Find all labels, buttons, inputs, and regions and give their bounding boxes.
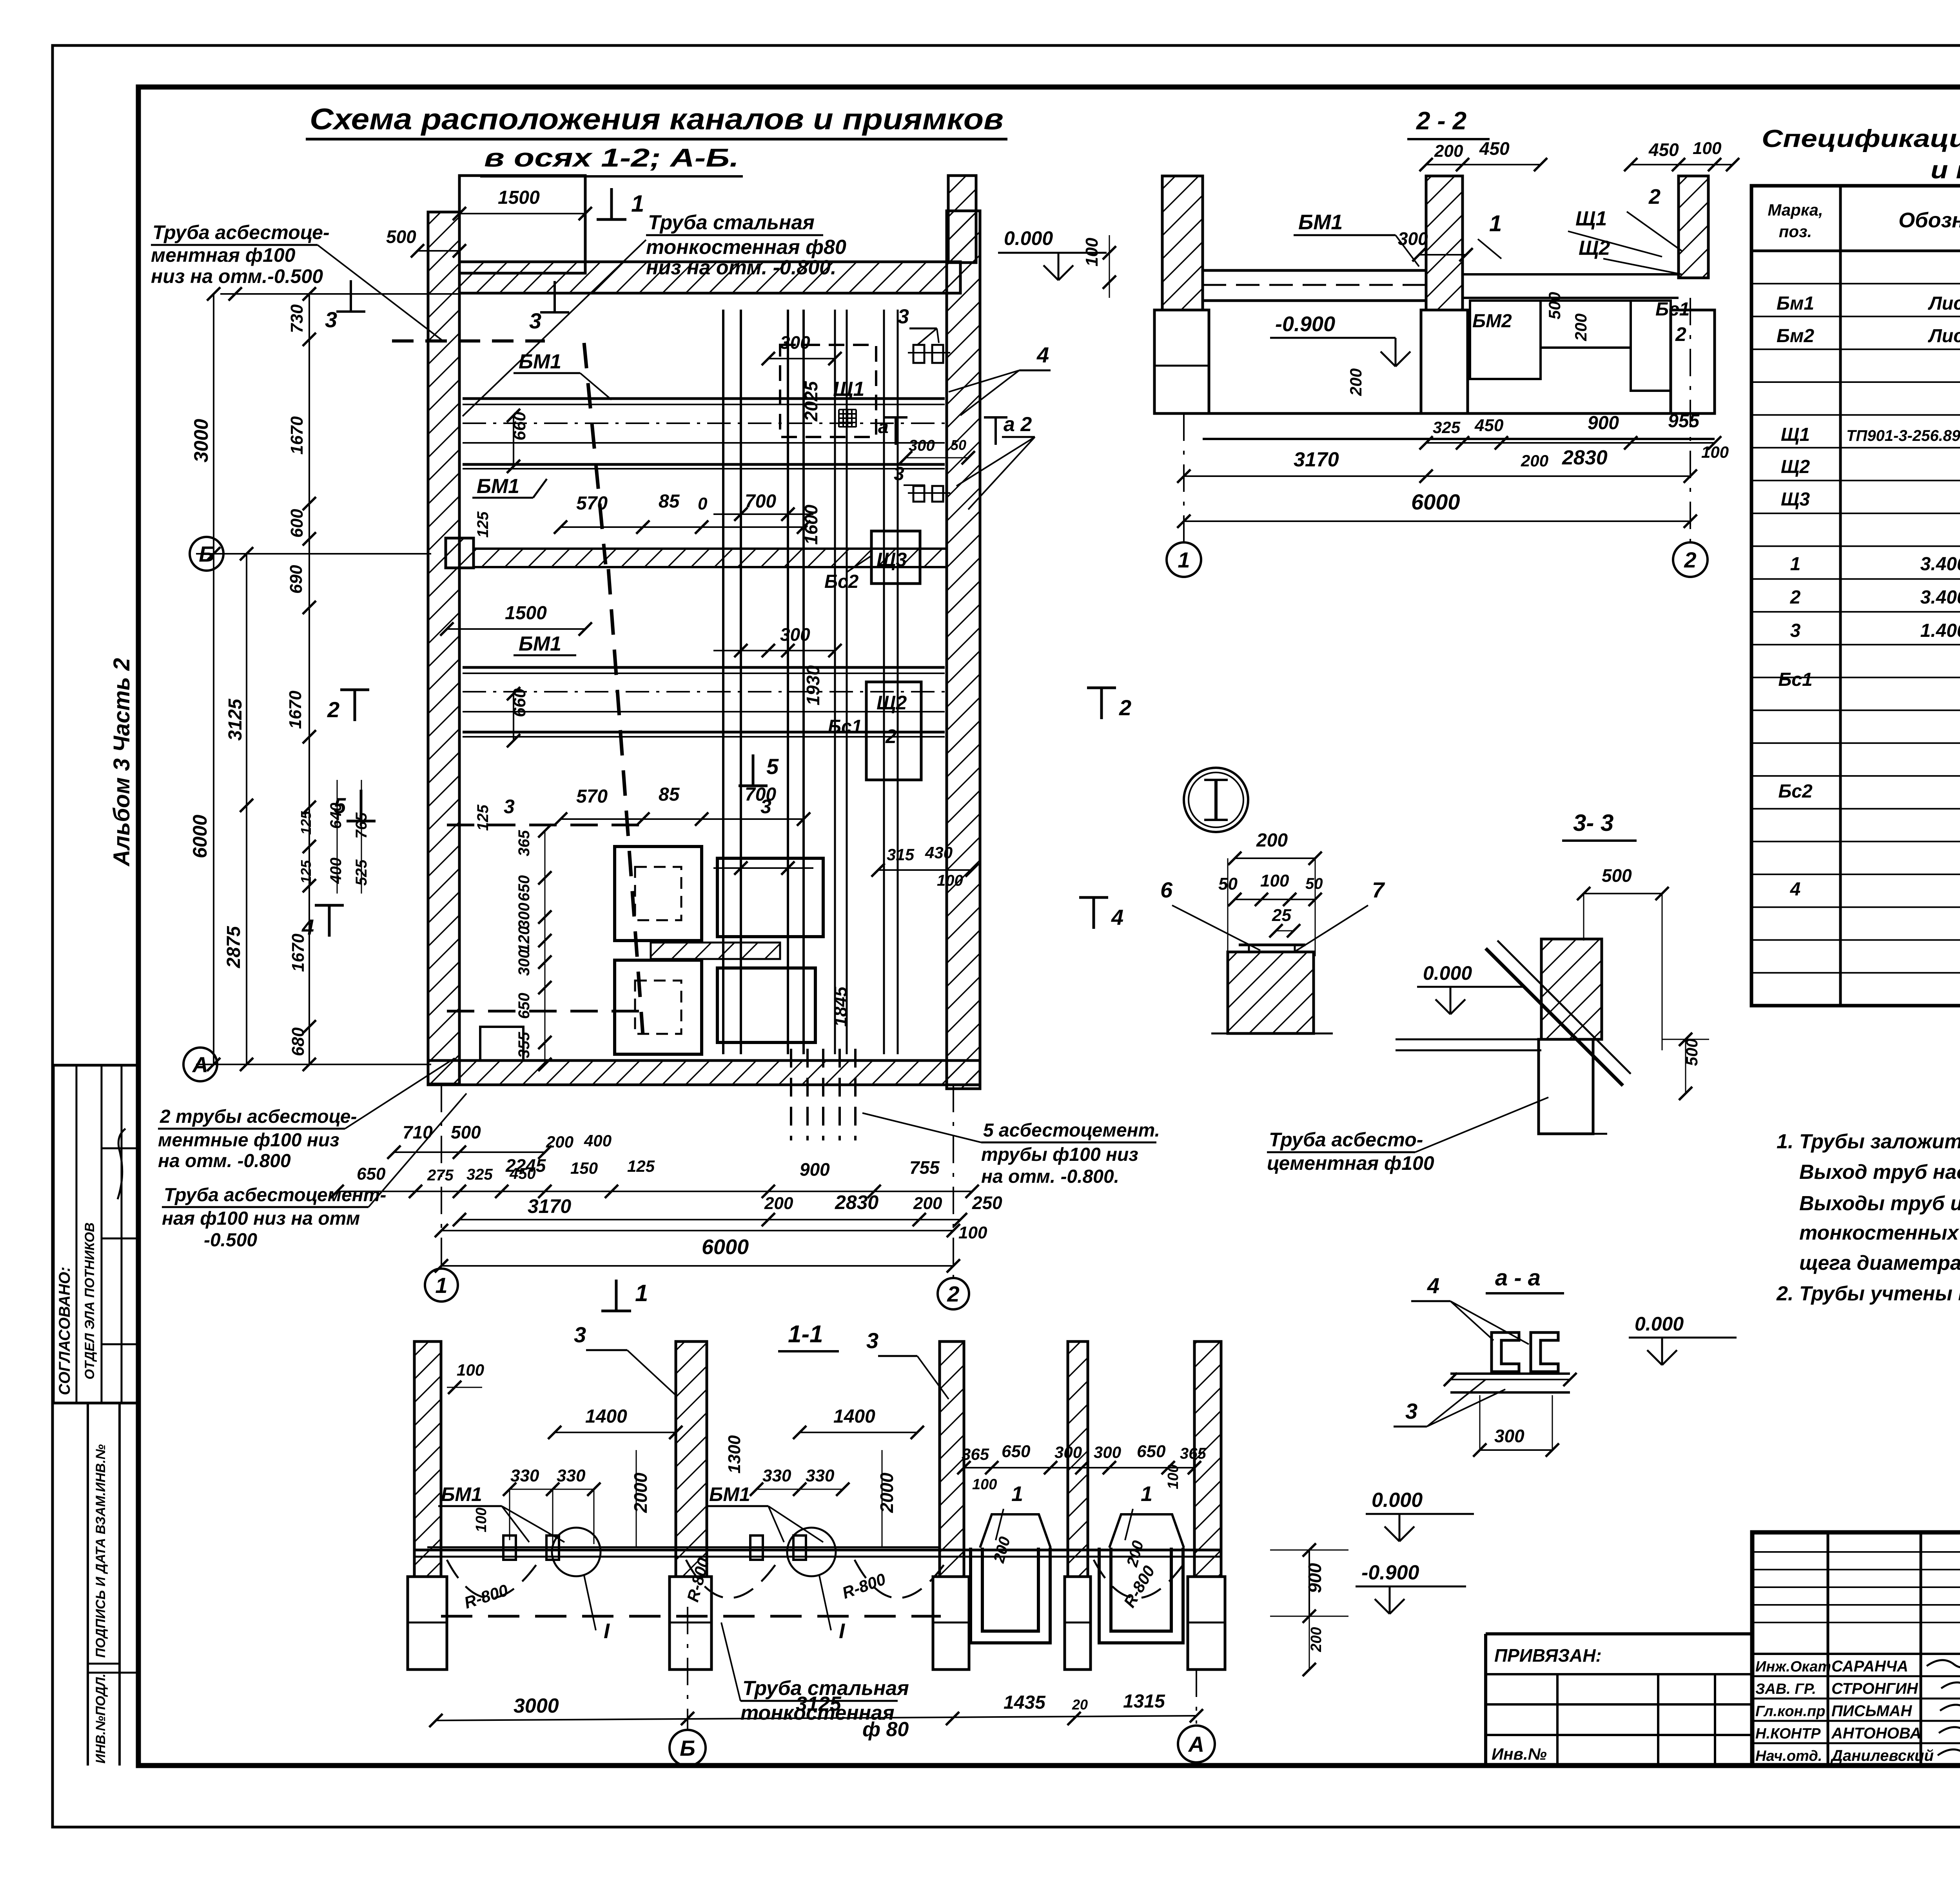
svg-text:0.000: 0.000: [1372, 1489, 1423, 1512]
plan top opening: [459, 176, 585, 273]
svg-text:2: 2: [1684, 547, 1696, 572]
svg-text:4: 4: [301, 915, 314, 939]
svg-text:900: 900: [1305, 1563, 1325, 1593]
dim 1500 top: [459, 213, 585, 214]
svg-text:2 трубы асбестоце-: 2 трубы асбестоце-: [160, 1106, 357, 1127]
sec2-2 right column: [1679, 176, 1708, 278]
svg-text:1670: 1670: [287, 416, 307, 455]
svg-text:СТРОНГИН: СТРОНГИН: [1831, 1680, 1918, 1697]
svg-text:50: 50: [1305, 875, 1323, 892]
sec2-2 step structures: [1470, 301, 1541, 379]
svg-text:100: 100: [457, 1361, 484, 1379]
svg-text:а: а: [878, 417, 889, 437]
1-1 footings: [408, 1577, 447, 1670]
svg-text:на отм. -0.800.: на отм. -0.800.: [981, 1166, 1119, 1187]
1-1 couplings and detail circles: [503, 1535, 516, 1560]
plan bottom small rect: [480, 1027, 523, 1060]
svg-text:БМ1: БМ1: [1298, 210, 1343, 234]
svg-text:Труба асбесто-: Труба асбесто-: [1269, 1129, 1423, 1151]
svg-text:2: 2: [327, 697, 339, 722]
svg-text:3.400- 6/76: 3.400- 6/76: [1920, 587, 1960, 608]
svg-text:ИНВ.№ПОДЛ.: ИНВ.№ПОДЛ.: [93, 1673, 108, 1764]
plan dashed pipe lines bottom room: [447, 824, 651, 827]
svg-text:500: 500: [1602, 865, 1632, 886]
svg-text:Выходы труб из пола защитить о: Выходы труб из пола защитить отрезками и…: [1799, 1192, 1960, 1215]
3-3 diagonal brace: [1486, 948, 1623, 1086]
plan Sch2 box: [866, 682, 921, 780]
svg-text:5: 5: [766, 754, 779, 779]
svg-text:АНТОНОВА: АНТОНОВА: [1831, 1725, 1921, 1742]
svg-text:400: 400: [584, 1131, 612, 1150]
svg-text:ф 80: ф 80: [862, 1718, 909, 1741]
svg-text:330: 330: [762, 1466, 791, 1485]
plan left wall: [428, 212, 459, 1084]
svg-text:700: 700: [745, 491, 776, 512]
svg-text:1: 1: [635, 1280, 648, 1306]
svg-text:Щ1: Щ1: [1575, 207, 1607, 230]
svg-text:730: 730: [287, 304, 307, 333]
1-1 R-800 arcs: [447, 1560, 537, 1598]
svg-text:4: 4: [1790, 879, 1801, 900]
svg-text:1: 1: [1178, 547, 1190, 572]
1-1 dims 330 330 left: [510, 1489, 594, 1490]
3-3 pier: [1539, 1039, 1593, 1134]
svg-text:200: 200: [1521, 451, 1548, 470]
svg-text:1500: 1500: [498, 187, 540, 208]
svg-text:600: 600: [287, 509, 307, 538]
svg-text:0.000: 0.000: [1635, 1313, 1684, 1335]
plan a section mark: [895, 417, 897, 445]
svg-text:450: 450: [1648, 140, 1679, 160]
svg-text:1930: 1930: [803, 665, 823, 705]
svg-text:275: 275: [427, 1167, 454, 1184]
svg-text:650: 650: [515, 875, 533, 901]
svg-text:1: 1: [1141, 1482, 1152, 1506]
svg-text:755: 755: [909, 1157, 940, 1178]
svg-text:Щ2: Щ2: [1579, 237, 1610, 259]
svg-text:3- 3: 3- 3: [1573, 810, 1613, 836]
svg-text:900: 900: [800, 1159, 830, 1180]
svg-text:200: 200: [764, 1194, 793, 1213]
dim 1500 mid: [447, 628, 585, 630]
svg-text:710: 710: [403, 1122, 433, 1142]
svg-text:650: 650: [1137, 1442, 1166, 1461]
svg-text:430: 430: [925, 843, 953, 862]
specification table grid: [1751, 186, 1960, 1006]
svg-text:а - а: а - а: [1495, 1265, 1541, 1291]
section mark 2 left: [354, 690, 356, 721]
svg-text:400: 400: [327, 857, 345, 884]
svg-text:6: 6: [1160, 877, 1173, 902]
svg-text:Щ1: Щ1: [1781, 424, 1810, 445]
svg-text:3000: 3000: [514, 1695, 559, 1717]
dashed verticals bottom plan: [790, 1049, 792, 1140]
svg-text:низ на отм. -0.800.: низ на отм. -0.800.: [646, 256, 837, 279]
svg-text:100: 100: [937, 872, 963, 889]
svg-text:I: I: [839, 1619, 845, 1643]
svg-text:1: 1: [435, 1273, 447, 1298]
svg-text:Нач.отд.: Нач.отд.: [1755, 1748, 1822, 1764]
svg-text:100: 100: [1701, 443, 1729, 461]
svg-text:100: 100: [958, 1223, 987, 1242]
3-3 floor lines: [1396, 1039, 1541, 1041]
svg-text:365: 365: [1180, 1445, 1206, 1462]
sec2-2 left column: [1162, 176, 1203, 310]
svg-text:3: 3: [504, 796, 515, 818]
svg-text:3: 3: [325, 307, 337, 332]
svg-text:5 асбестоцемент.: 5 асбестоцемент.: [983, 1120, 1160, 1141]
plan beam bundle top (BM1): [463, 397, 945, 400]
plan pit step band: [651, 943, 780, 959]
svg-text:1500: 1500: [505, 603, 547, 624]
svg-text:Лист 21: Лист 21: [1928, 293, 1960, 314]
svg-text:Бс2: Бс2: [824, 571, 859, 592]
svg-text:и приямков.: и приямков.: [1931, 156, 1960, 184]
svg-text:4: 4: [1111, 905, 1123, 930]
svg-text:85: 85: [659, 491, 680, 512]
axis B line: [196, 553, 431, 555]
svg-text:I: I: [604, 1619, 610, 1643]
svg-text:-0.900: -0.900: [1361, 1561, 1419, 1584]
svg-text:330: 330: [806, 1466, 835, 1485]
svg-text:680: 680: [289, 1027, 308, 1056]
axis circle 2 plan: [953, 1085, 954, 1278]
section mark 5 left: [360, 790, 363, 821]
svg-text:3: 3: [1790, 620, 1801, 641]
svg-text:1-1: 1-1: [788, 1321, 823, 1348]
svg-text:150: 150: [570, 1159, 598, 1177]
svg-text:1845: 1845: [830, 986, 851, 1027]
svg-text:650: 650: [1002, 1442, 1031, 1461]
1-1 floor lines: [414, 1549, 1221, 1552]
axis A circle: [183, 1048, 217, 1081]
svg-text:330: 330: [510, 1466, 539, 1485]
svg-text:ментные ф100 низ: ментные ф100 низ: [158, 1130, 339, 1151]
dim 500 top: [417, 250, 459, 252]
svg-text:200: 200: [1434, 141, 1463, 161]
svg-text:4: 4: [1427, 1273, 1439, 1298]
svg-text:Щ2: Щ2: [877, 692, 907, 714]
plan middle wall band: [474, 549, 947, 567]
svg-text:Инж.Окат: Инж.Окат: [1755, 1659, 1831, 1675]
svg-text:Бм2: Бм2: [1777, 326, 1814, 346]
dashed pipe at top: [392, 339, 545, 343]
svg-text:1: 1: [1011, 1482, 1023, 1506]
svg-text:низ на отм.-0.500: низ на отм.-0.500: [151, 265, 323, 287]
svg-text:3.400- 6/76: 3.400- 6/76: [1920, 554, 1960, 575]
svg-text:500: 500: [1545, 292, 1564, 319]
svg-text:2: 2: [1675, 323, 1686, 345]
svg-text:Марка,: Марка,: [1768, 201, 1823, 219]
plan beam bundle bottom (BM1): [463, 666, 945, 669]
steel pipe dashed trace upper: [584, 343, 606, 564]
svg-text:125: 125: [474, 511, 492, 538]
svg-text:тонкостенная ф80: тонкостенная ф80: [646, 236, 846, 259]
svg-text:3: 3: [1405, 1399, 1417, 1423]
svg-text:500: 500: [386, 227, 416, 247]
svg-text:Труба стальная: Труба стальная: [742, 1677, 909, 1700]
svg-text:100: 100: [972, 1476, 997, 1493]
a-a base plate: [1450, 1372, 1570, 1375]
a-a channels: [1492, 1332, 1519, 1372]
svg-text:Щ3: Щ3: [877, 549, 907, 571]
section mark 4 left: [328, 905, 331, 937]
svg-text:100: 100: [1165, 1465, 1181, 1489]
sec2-2 middle column: [1426, 176, 1463, 310]
left dim chain 1: [213, 294, 214, 1064]
detail I block: [1228, 952, 1314, 1033]
svg-text:125: 125: [474, 805, 492, 831]
svg-text:2000: 2000: [630, 1472, 651, 1513]
svg-text:2: 2: [885, 725, 897, 747]
svg-text:3: 3: [760, 796, 771, 818]
svg-text:300: 300: [515, 903, 533, 929]
section mark 2 right: [1100, 688, 1103, 719]
svg-text:Обозначение: Обозначение: [1898, 208, 1960, 232]
plan right inner channel lines: [834, 310, 836, 1054]
svg-text:2245: 2245: [505, 1155, 546, 1176]
svg-text:1300: 1300: [725, 1435, 744, 1474]
sec2-2 bottom floor line: [1154, 412, 1715, 415]
svg-text:1: 1: [1489, 211, 1502, 236]
plan middle wall stub: [446, 538, 474, 568]
svg-text:3: 3: [529, 308, 541, 333]
svg-text:1400: 1400: [833, 1406, 875, 1427]
margin bottom strip: [87, 1403, 89, 1766]
svg-text:1: 1: [1790, 554, 1801, 575]
1-1 dims 330 330 right: [757, 1489, 843, 1490]
svg-text:Б: Б: [680, 1736, 695, 1760]
svg-text:325: 325: [1433, 418, 1461, 437]
svg-text:поз.: поз.: [1779, 222, 1812, 241]
svg-text:ПРИВЯЗАН:: ПРИВЯЗАН:: [1494, 1645, 1602, 1666]
margin approval box: [53, 1065, 138, 1403]
svg-text:100: 100: [1260, 871, 1289, 890]
svg-text:3: 3: [894, 464, 904, 484]
svg-text:3170: 3170: [528, 1195, 571, 1217]
1-1 axis circles: [687, 1607, 688, 1729]
svg-text:3: 3: [574, 1322, 586, 1347]
sec2-2 right floor: [1463, 273, 1679, 276]
svg-text:2: 2: [947, 1282, 959, 1306]
svg-text:Бс1: Бс1: [1655, 299, 1690, 320]
svg-text:0: 0: [698, 494, 708, 513]
svg-text:1: 1: [631, 190, 644, 217]
svg-text:365: 365: [962, 1445, 989, 1463]
svg-text:100: 100: [1082, 237, 1102, 266]
svg-text:325: 325: [466, 1166, 493, 1183]
svg-text:БМ1: БМ1: [441, 1483, 482, 1505]
svg-text:Спецификация к схеме расположе: Спецификация к схеме расположения канало…: [1762, 125, 1960, 152]
svg-text:цементная ф100: цементная ф100: [1267, 1152, 1434, 1174]
1-1 pipe line: [427, 1546, 941, 1548]
svg-text:ЗАВ. ГР.: ЗАВ. ГР.: [1755, 1681, 1816, 1697]
svg-text:85: 85: [659, 784, 680, 805]
left dim chain 2: [246, 554, 247, 1064]
svg-text:3000: 3000: [190, 419, 212, 462]
1-1 dashed pipe line: [441, 1615, 941, 1618]
svg-text:1.400- 6/76: 1.400- 6/76: [1920, 620, 1960, 641]
svg-text:Щ2: Щ2: [1781, 457, 1810, 477]
svg-text:300: 300: [1094, 1443, 1121, 1461]
svg-text:2000: 2000: [877, 1472, 897, 1513]
1-1 pit trapezoid tops: [980, 1514, 1051, 1548]
svg-text:ТП901-3-256.89-КЖ.И70.00.00: ТП901-3-256.89-КЖ.И70.00.00: [1846, 427, 1960, 444]
svg-text:Щ1: Щ1: [833, 378, 864, 401]
svg-text:200: 200: [913, 1194, 942, 1213]
svg-text:Труба асбестоцемент-: Труба асбестоцемент-: [164, 1185, 386, 1206]
svg-text:2 - 2: 2 - 2: [1416, 107, 1466, 135]
svg-text:6000: 6000: [189, 815, 211, 858]
stamp outline: [1752, 1532, 1960, 1766]
svg-text:Щ3: Щ3: [1781, 489, 1810, 510]
svg-text:6000: 6000: [1411, 489, 1460, 514]
plan right wall: [947, 211, 980, 1089]
1-1 columns: [414, 1341, 441, 1577]
svg-text:3: 3: [866, 1328, 878, 1353]
svg-text:650: 650: [357, 1164, 386, 1184]
plan channel cross ticks: [713, 513, 813, 515]
sec2-2 axis circles: [1183, 413, 1185, 543]
svg-text:БМ1: БМ1: [477, 475, 519, 498]
svg-text:125: 125: [627, 1157, 655, 1175]
svg-text:955: 955: [1668, 411, 1700, 431]
svg-text:650: 650: [515, 993, 533, 1019]
svg-text:2830: 2830: [835, 1191, 878, 1213]
svg-text:300: 300: [780, 624, 810, 645]
axis B circle: [190, 537, 223, 571]
plan Sch1 dashed box: [780, 345, 876, 437]
svg-text:6000: 6000: [702, 1235, 749, 1259]
section mark 4 right: [1093, 897, 1095, 929]
plan top boundary dim line: [220, 293, 459, 295]
svg-text:200: 200: [1308, 1627, 1325, 1652]
svg-text:трубы ф100 низ: трубы ф100 низ: [981, 1144, 1138, 1165]
svg-text:300: 300: [780, 332, 810, 353]
svg-text:Труба стальная: Труба стальная: [648, 211, 815, 234]
section mark 1 top: [610, 188, 613, 219]
svg-text:100: 100: [1693, 139, 1722, 158]
svg-text:200: 200: [546, 1133, 573, 1151]
svg-text:200: 200: [1256, 830, 1288, 851]
svg-text:3125: 3125: [225, 698, 246, 741]
plan right wall top column: [948, 176, 976, 263]
svg-text:300: 300: [1398, 228, 1428, 249]
svg-text:125: 125: [298, 811, 314, 835]
svg-text:570: 570: [576, 493, 608, 514]
svg-text:7: 7: [1372, 877, 1385, 902]
svg-text:Лист 21: Лист 21: [1928, 326, 1960, 346]
svg-text:2025: 2025: [801, 381, 821, 422]
svg-text:А: А: [192, 1052, 208, 1077]
svg-text:ная ф100 низ на отм: ная ф100 низ на отм: [162, 1208, 360, 1229]
svg-text:Бм1: Бм1: [1777, 293, 1814, 314]
plan grid symbol: [839, 410, 856, 427]
svg-text:а 2: а 2: [1004, 413, 1032, 436]
svg-text:1670: 1670: [286, 691, 305, 729]
svg-text:2: 2: [1119, 695, 1131, 720]
svg-text:300: 300: [1054, 1443, 1082, 1461]
svg-text:СОГЛАСОВАНО:: СОГЛАСОВАНО:: [56, 1267, 73, 1395]
svg-text:355: 355: [515, 1032, 533, 1058]
svg-text:1435: 1435: [1004, 1692, 1046, 1713]
svg-text:500: 500: [451, 1122, 481, 1142]
svg-text:Бс1: Бс1: [1778, 669, 1812, 690]
svg-text:2: 2: [1648, 185, 1661, 208]
svg-text:1. Трубы заложить в бетонной п: 1. Трубы заложить в бетонной подготовке …: [1777, 1130, 1960, 1153]
svg-text:1600: 1600: [801, 504, 821, 545]
svg-text:450: 450: [1479, 138, 1510, 159]
steel pipe dashed trace lower: [608, 569, 643, 1035]
stamp left grid: [1827, 1532, 1829, 1766]
svg-text:БМ1: БМ1: [519, 633, 561, 655]
plan a2 section mark: [995, 417, 997, 445]
svg-text:Бс1: Бс1: [828, 716, 862, 737]
1-1 bottom dim line: [436, 1716, 1196, 1720]
svg-text:2. Трубы учтены на листах мар: 2. Трубы учтены на листах марки ЭМ.: [1776, 1282, 1960, 1305]
section mark 1 bottom plan: [615, 1280, 618, 1311]
svg-text:-0.500: -0.500: [204, 1230, 257, 1251]
svg-text:2875: 2875: [223, 926, 244, 968]
svg-text:100: 100: [473, 1508, 490, 1532]
svg-text:690: 690: [287, 565, 306, 594]
svg-text:1400: 1400: [585, 1406, 627, 1427]
svg-text:5: 5: [334, 793, 346, 818]
svg-text:Альбом 3 Часть 2: Альбом 3 Часть 2: [109, 658, 134, 867]
steel pipe label leader: [463, 240, 646, 416]
svg-text:А: А: [1188, 1732, 1204, 1757]
svg-text:365: 365: [515, 830, 533, 856]
3-3 wall: [1541, 939, 1602, 1039]
svg-text:0.000: 0.000: [1004, 227, 1053, 249]
left dim chain 3: [309, 294, 310, 1064]
svg-text:0.000: 0.000: [1423, 962, 1472, 984]
svg-text:250: 250: [972, 1193, 1002, 1213]
svg-text:3170: 3170: [1294, 448, 1339, 471]
sec2-2 floor beam: [1203, 269, 1426, 272]
svg-text:Бс2: Бс2: [1778, 781, 1813, 802]
plan central channel: [722, 310, 724, 1054]
svg-text:-0.900: -0.900: [1275, 312, 1335, 336]
svg-text:в осях 1-2; А-Б.: в осях 1-2; А-Б.: [484, 143, 739, 172]
svg-text:2830: 2830: [1562, 446, 1608, 469]
svg-text:Н.КОНТР: Н.КОНТР: [1755, 1726, 1821, 1742]
svg-text:Схема расположения каналов и п: Схема расположения каналов и приямков: [310, 103, 1004, 136]
section mark 5 right: [752, 754, 755, 786]
attachment box: [1484, 1634, 1487, 1766]
svg-text:САРАНЧА: САРАНЧА: [1831, 1658, 1908, 1675]
svg-text:Труба асбестоце-: Труба асбестоце-: [152, 221, 330, 243]
svg-text:ОТДЕЛ ЭЛА ПОТНИКОВ: ОТДЕЛ ЭЛА ПОТНИКОВ: [82, 1222, 97, 1380]
plan Sch3 box: [871, 531, 920, 584]
svg-text:50: 50: [951, 437, 966, 453]
svg-text:300: 300: [515, 950, 533, 976]
svg-text:200: 200: [1347, 368, 1365, 396]
svg-text:20: 20: [1072, 1697, 1088, 1713]
detail I circle: [1184, 768, 1248, 832]
axis circle 1 plan: [441, 1085, 442, 1269]
svg-text:3: 3: [898, 305, 909, 328]
svg-text:БМ1: БМ1: [519, 350, 561, 373]
svg-text:тонкостенных стальных труб соо: тонкостенных стальных труб соответствую-: [1799, 1222, 1960, 1244]
svg-text:ментная ф100: ментная ф100: [151, 244, 296, 266]
svg-text:4: 4: [1036, 343, 1049, 367]
1-1 dim 1400 left: [555, 1432, 676, 1433]
plan top wall: [459, 262, 960, 293]
svg-text:щега диаметра.: щега диаметра.: [1799, 1252, 1960, 1274]
svg-text:300: 300: [1494, 1426, 1524, 1446]
svg-text:на отм. -0.800: на отм. -0.800: [158, 1151, 291, 1171]
